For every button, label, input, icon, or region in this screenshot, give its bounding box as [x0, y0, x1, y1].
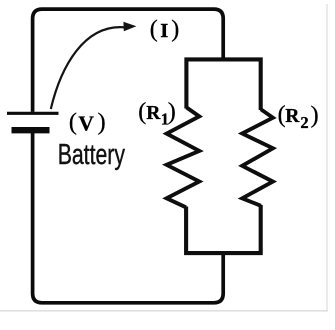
svg-text:Battery: Battery — [58, 139, 126, 171]
svg-text:(R1): (R1) — [138, 99, 176, 128]
battery B1 negative plate (short thick) — [12, 127, 50, 133]
battery B1 positive plate (long) — [7, 112, 59, 115]
node: parallel top bar with branch stubs — [186, 59, 260, 110]
wire: top route from battery + plate up, across top, down to parallel top bar — [33, 9, 224, 112]
node: parallel bottom bar with branch stubs — [186, 205, 261, 253]
current arrow head — [123, 22, 136, 31]
wire: bottom route from battery - plate down, across bottom, up to parallel bottom bar — [33, 133, 224, 303]
svg-text:(R2): (R2) — [278, 102, 319, 132]
resistor R1 zigzag — [167, 108, 200, 208]
svg-text:(V): (V) — [69, 110, 106, 136]
current direction curved arrow — [51, 27, 126, 109]
resistor R2 zigzag — [242, 109, 273, 206]
svg-text:(I): (I) — [150, 16, 179, 42]
